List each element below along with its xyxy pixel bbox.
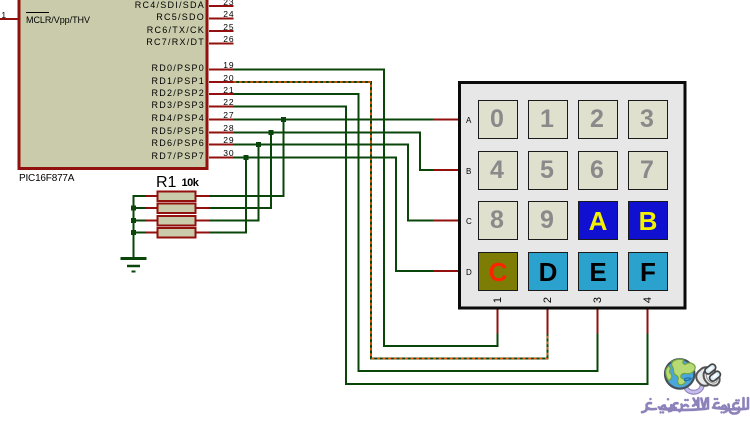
keypad button 6 [578,151,618,190]
keypad button E [578,252,618,291]
wire net RD0 pin19 to keypad column 1 [234,70,498,347]
keypad column label 4 [638,290,658,310]
highlighted dashed overlay on RD1 net [234,82,548,359]
keypad column 1 pin stub [497,309,499,334]
wire branch pin29 to resistor 3 [209,145,259,221]
keypad button 1 [528,100,568,139]
wire resistor left commons to ground [134,196,147,258]
pin number 19 [200,61,235,70]
pin name RD5/PSP5 [100,127,205,136]
logo cable [683,383,702,392]
pin number 25 [200,23,235,32]
keypad column 2 pin stub [547,309,549,335]
pin number 27 [200,111,235,120]
pin 23 stub [209,5,234,7]
pin name RD1/PSP1 [100,77,205,86]
pin 20 stub [209,81,234,83]
logo plug prong 1 [704,363,717,375]
MCLR overline [26,12,49,13]
pin name RD7/PSP7 [100,152,205,161]
resistor network value 10k [182,178,199,189]
keypad body [460,83,686,309]
pin name RD4/PSP4 [100,114,205,123]
keypad column 3 pin stub [597,309,599,334]
logo plug body [693,364,723,389]
wire net RD6 pin29 to keypad row C [234,145,434,221]
keypad button B [628,201,668,240]
keypad button 0 [478,100,518,139]
pin 22 stub [209,106,234,108]
junction on resistor common R2 [131,206,136,211]
pin number 20 [200,74,235,83]
keypad column label 2 [538,290,558,310]
logo: globe with plug and arabic text [640,338,750,430]
pin 28 stub [209,132,234,134]
keypad button C [478,252,518,291]
wire net RD7 pin30 to keypad row D [234,158,434,272]
chip label PIC16F877A [19,174,74,184]
keypad row B pin stub [433,169,458,171]
junction on resistor common R3 [131,218,136,223]
keypad button 5 [528,151,568,190]
pin number 22 [200,98,235,107]
pin number 23 [200,0,235,6]
keypad button 7 [628,151,668,190]
logo arabic caption dots [649,398,740,414]
pin name RC7/RX/DT [100,38,205,47]
pin number 24 [200,10,235,19]
junction on pin28 wire [269,130,274,135]
pin 29 stub [209,144,234,146]
IC U1 PIC16F877A body [19,0,207,169]
keypad button A [578,201,618,240]
keypad button 2 [578,100,618,139]
keypad row D pin stub [433,270,458,272]
keypad button F [628,252,668,291]
resistor R1 element 1 body [146,192,209,202]
junction on pin30 wire [244,155,249,160]
junction on resistor common R4 [131,230,136,235]
pin 21 stub [209,93,234,95]
keypad button D [528,252,568,291]
pin 27 stub [209,119,234,121]
wire net RD1 pin20 to keypad column 2 (green base) [234,82,548,359]
keypad row label B [466,168,471,176]
pin name RC5/SDO [100,13,205,22]
keypad row label C [466,218,472,226]
keypad row A pin stub [433,119,458,121]
ground symbol [121,259,147,272]
keypad column label 1 [488,290,508,310]
pin number 21 [200,86,235,95]
keypad button 4 [478,151,518,190]
pin name RD6/PSP6 [100,139,205,148]
pin number 29 [200,136,235,145]
pin name RC4/SDI/SDA [100,1,205,10]
pin name RD3/PSP3 [100,101,205,110]
wire branch pin30 to resistor 4 [209,158,247,233]
logo arabic caption word 2 [642,398,708,412]
pin name RD0/PSP0 [100,64,205,73]
wire net RD3 pin22 to keypad column 4 [234,107,648,385]
keypad column label 3 [588,290,608,310]
keypad button 8 [478,201,518,240]
pin 30 stub [209,157,234,159]
pin number 30 [200,149,235,158]
wire net RD5 pin28 to keypad row B [234,133,434,171]
wire net RD2 pin21 to keypad column 3 [234,94,598,371]
pin name RD2/PSP2 [100,89,205,98]
keypad row label A [466,117,471,125]
wire net RD4 pin27 to keypad row A [234,119,434,121]
pin 24 stub [209,18,234,20]
pin number 1 label [0,11,7,20]
logo globe earth [665,359,695,388]
logo plug prong 2 [708,370,721,382]
pin number 26 [200,35,235,44]
junction on pin27 wire [281,117,286,122]
pin 25 stub [209,30,234,32]
resistor R1 element 4 body [146,228,209,238]
junction on pin29 wire [256,142,261,147]
resistor R1 element 3 body [146,216,209,226]
logo arabic caption word 1 [713,398,748,414]
keypad button 3 [628,100,668,139]
wire branch pin28 to resistor 2 [209,133,272,209]
pin 1 stub MCLR [0,18,18,20]
keypad column 4 pin stub [647,309,649,334]
resistor R1 element 2 body [146,204,209,214]
wire branch pin27 to resistor 1 [209,120,284,197]
pin 19 stub [209,69,234,71]
pin name RC6/TX/CK [100,26,205,35]
pin name MCLR/Vpp/THV [26,16,90,25]
keypad row C pin stub [433,220,458,222]
keypad button 9 [528,201,568,240]
keypad row label D [466,269,472,277]
pin 26 stub [209,43,234,45]
resistor network label R1 [156,175,176,191]
pin number 28 [200,124,235,133]
